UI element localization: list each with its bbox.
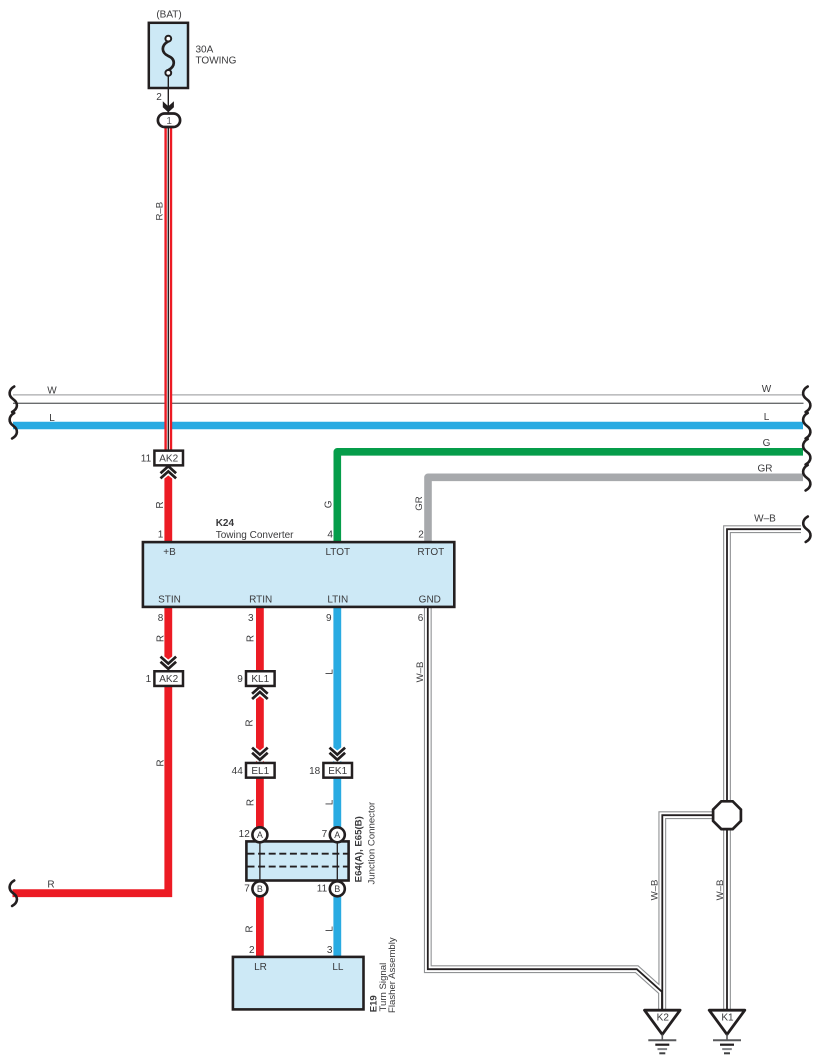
svg-text:2: 2 bbox=[249, 945, 255, 956]
svg-text:(BAT): (BAT) bbox=[156, 10, 181, 21]
svg-text:R: R bbox=[245, 635, 256, 642]
svg-text:G: G bbox=[763, 438, 771, 449]
svg-text:LTOT: LTOT bbox=[325, 547, 350, 558]
svg-text:LTIN: LTIN bbox=[327, 595, 348, 606]
svg-text:LL: LL bbox=[332, 962, 344, 973]
svg-text:A: A bbox=[257, 830, 263, 840]
svg-text:L: L bbox=[325, 669, 336, 675]
svg-text:11: 11 bbox=[317, 883, 328, 894]
svg-text:GND: GND bbox=[419, 595, 441, 606]
svg-text:GR: GR bbox=[758, 464, 773, 475]
svg-text:R–B: R–B bbox=[154, 202, 165, 221]
svg-text:44: 44 bbox=[232, 766, 244, 777]
svg-text:11: 11 bbox=[141, 454, 152, 465]
svg-text:W–B: W–B bbox=[415, 662, 426, 683]
svg-text:9: 9 bbox=[326, 613, 332, 624]
svg-text:LR: LR bbox=[254, 962, 267, 973]
svg-text:W: W bbox=[762, 384, 772, 395]
svg-text:B: B bbox=[334, 884, 340, 894]
svg-text:K24: K24 bbox=[216, 518, 235, 529]
svg-text:KL1: KL1 bbox=[251, 674, 269, 685]
svg-text:TOWING: TOWING bbox=[196, 56, 237, 67]
svg-text:1: 1 bbox=[166, 116, 172, 127]
svg-text:Towing Converter: Towing Converter bbox=[216, 530, 294, 541]
svg-text:K1: K1 bbox=[721, 1013, 734, 1024]
svg-text:R: R bbox=[245, 719, 256, 726]
svg-text:9: 9 bbox=[237, 674, 243, 685]
svg-text:1: 1 bbox=[158, 529, 164, 540]
svg-text:Junction Connector: Junction Connector bbox=[366, 801, 377, 884]
svg-text:W–B: W–B bbox=[754, 514, 776, 525]
svg-text:AK2: AK2 bbox=[159, 454, 178, 465]
svg-text:Flasher Assembly: Flasher Assembly bbox=[387, 937, 398, 1013]
svg-text:7: 7 bbox=[322, 829, 328, 840]
svg-text:GR: GR bbox=[414, 496, 425, 510]
svg-text:AK2: AK2 bbox=[159, 674, 178, 685]
svg-text:30A: 30A bbox=[196, 45, 214, 56]
svg-text:W–B: W–B bbox=[649, 880, 660, 901]
svg-text:L: L bbox=[49, 413, 55, 424]
svg-text:B: B bbox=[257, 884, 263, 894]
svg-text:L: L bbox=[764, 412, 770, 423]
svg-text:18: 18 bbox=[309, 766, 321, 777]
svg-text:W–B: W–B bbox=[715, 880, 726, 901]
svg-text:EK1: EK1 bbox=[328, 766, 347, 777]
svg-text:6: 6 bbox=[418, 613, 424, 624]
svg-text:12: 12 bbox=[239, 829, 251, 840]
svg-text:L: L bbox=[324, 799, 335, 805]
svg-text:G: G bbox=[323, 500, 334, 508]
svg-text:A: A bbox=[334, 830, 340, 840]
svg-text:R: R bbox=[155, 635, 166, 642]
svg-text:2: 2 bbox=[418, 529, 424, 540]
svg-text:8: 8 bbox=[158, 613, 164, 624]
svg-text:RTIN: RTIN bbox=[249, 595, 272, 606]
svg-text:2: 2 bbox=[156, 92, 162, 103]
svg-text:STIN: STIN bbox=[158, 595, 181, 606]
svg-text:4: 4 bbox=[327, 529, 333, 540]
svg-text:EL1: EL1 bbox=[251, 766, 269, 777]
svg-text:R: R bbox=[155, 501, 166, 508]
svg-text:R: R bbox=[245, 925, 256, 932]
svg-text:W: W bbox=[47, 386, 57, 397]
svg-text:K2: K2 bbox=[657, 1013, 670, 1024]
svg-text:1: 1 bbox=[146, 674, 152, 685]
svg-text:RTOT: RTOT bbox=[417, 547, 444, 558]
svg-text:+B: +B bbox=[163, 547, 176, 558]
svg-text:R: R bbox=[47, 880, 54, 891]
svg-text:3: 3 bbox=[327, 945, 333, 956]
svg-text:3: 3 bbox=[248, 613, 254, 624]
svg-text:R: R bbox=[155, 759, 166, 766]
svg-text:7: 7 bbox=[244, 883, 250, 894]
svg-text:E64(A), E65(B): E64(A), E65(B) bbox=[354, 816, 365, 882]
svg-text:L: L bbox=[324, 926, 335, 932]
svg-text:R: R bbox=[246, 799, 257, 806]
